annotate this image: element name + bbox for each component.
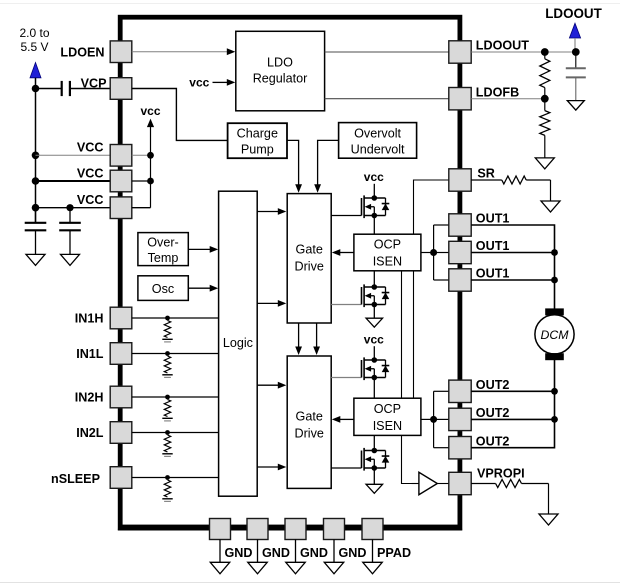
svg-text:IN2H: IN2H [75,391,104,405]
pin label OUT1 (2) [476,239,510,253]
svg-text:LDOOUT: LDOOUT [545,6,602,21]
pin label SR [477,167,495,181]
label vcc (bridge 1) [364,170,384,184]
junction supply-VCC2 [32,177,40,185]
svg-text:VCC: VCC [77,141,104,155]
wire rail to C1 [36,88,62,90]
ground under PPAD pin [363,562,383,574]
ground under Q2 [366,318,383,327]
IC chip boundary bottom edge extra weight [118,529,463,531]
wire OUT2 tie bracket [434,391,449,447]
ground under C2 [26,254,45,265]
wire OUT1 pin3 to motor [471,279,554,281]
svg-text:Logic: Logic [223,336,253,350]
junction IN1L pulldown [165,351,170,356]
pin PPAD [362,519,383,540]
pin label IN2L [76,426,104,440]
pin label VCC (1) [77,141,104,155]
wire LDOOUT pin to divider [471,51,576,53]
wire Logic to Gate Drive 1 (b) [257,300,286,307]
svg-text:Undervolt: Undervolt [351,142,405,156]
resistor R8 (SR) [471,176,550,184]
junction vcc-VCC2 [147,178,154,185]
junction OUT1 tie [430,249,437,256]
label LDO Regulator [253,56,308,86]
svg-text:LDOEN: LDOEN [60,45,104,59]
pin GND [285,519,306,540]
wire Logic to Gate Drive 2 (a) [257,382,286,389]
junction LDOFB-R7 [541,95,549,103]
wire OCP1 to OCP2 (a) [401,271,403,398]
wire IN2L to Logic [132,432,219,434]
supply label 2.0 to 5.5 V [19,26,49,54]
pin label OUT2 (1) [476,378,510,392]
junction motor-OUT2-1 [551,388,558,395]
label Osc [152,282,174,296]
capacitor C2 (bulk on rail) [25,208,47,255]
svg-text:OUT1: OUT1 [476,212,510,226]
ground under GND pin [210,562,230,574]
svg-text:Osc: Osc [152,282,174,296]
wire rail to VCC2 pin [36,180,111,182]
wire R8 to ground [550,180,552,201]
label OCP ISEN 1 [373,238,402,269]
wire IN1H to Logic [132,317,219,319]
pin OUT1 [449,241,471,263]
svg-text:ISEN: ISEN [373,255,402,269]
junction LDOOUT-C4 [572,48,580,56]
junction nSLEEP pulldown [165,475,170,480]
svg-text:OUT1: OUT1 [476,239,510,253]
pin label GND [262,546,290,560]
svg-text:PPAD: PPAD [377,546,411,560]
label vcc (internal rail) [140,104,160,118]
junction motor-OUT1-3 [551,277,558,284]
junction supply-VCP [32,85,40,93]
wire SR to OCP1 [414,180,449,234]
wire GND pin to ground [257,540,259,563]
wire VCC2 internal stub [132,180,151,182]
wire LDOFB pin to divider [471,98,545,100]
block OCP ISEN 1 [354,234,421,271]
svg-text:VCP: VCP [81,76,107,90]
page rule (faint top line) [0,3,620,5]
svg-text:Drive: Drive [295,259,324,273]
capacitor C1 (VCP series) [62,81,70,96]
wire VCP to Charge Pump [132,89,228,141]
pin label PPAD [377,546,411,560]
wire OUT1 pin2 to motor [471,252,554,254]
svg-text:LDOOUT: LDOOUT [476,39,529,53]
block Over-Temp [138,233,188,266]
wire Logic to Gate Drive 1 (a) [257,208,286,215]
wire VCC1 internal stub [132,154,151,156]
junction motor-OUT1-2 [551,249,558,256]
svg-text:5.5 V: 5.5 V [20,40,48,54]
ground under C3 [61,254,80,265]
pin VCC [110,197,132,219]
pin OUT1 [449,214,471,236]
IC chip boundary [120,17,460,527]
label OCP ISEN 2 [373,402,402,433]
wire Overvolt to Gate Drive 1 [314,140,338,192]
wire GND pin to ground [219,540,221,563]
wire IN2H to Logic [132,396,219,398]
pin nSLEEP [110,467,132,489]
svg-text:Over-: Over- [147,236,178,250]
junction vcc-VCC1 [147,152,154,159]
pin VPROPI [449,472,471,494]
block Overvolt Undervolt [339,123,417,159]
ground under R2 [162,375,172,378]
pin GND [247,519,268,540]
svg-text:Regulator: Regulator [253,72,308,86]
wire Logic to Gate Drive 2 (b) [257,464,286,471]
pin label GND [339,546,367,560]
pin label LDOEN [60,45,104,59]
wire vcc to LDO [213,79,236,86]
wire Q1 source to OCP1 [373,216,375,235]
label LDOOUT (external node) [545,6,602,21]
wire PPAD pin to ground [372,540,374,563]
svg-text:Pump: Pump [241,143,274,157]
wire vcc to Q3 drain [373,346,375,360]
wire GND pin to ground [295,540,297,563]
svg-text:Charge: Charge [237,127,278,141]
transistor Q1 (high-side 1) [331,195,389,218]
resistor R4 (IN2L pulldown) [164,435,170,452]
pin VCP [110,78,132,100]
junction VCC3-C3 tap [66,204,73,211]
pin VCC [110,145,132,167]
svg-text:IN1H: IN1H [75,312,104,326]
transistor Q2 (low-side 1) [331,284,389,307]
resistor R1 (IN1H pulldown) [164,321,170,338]
pin OUT2 [449,408,471,430]
pin label OUT2 (2) [476,406,510,420]
pin label nSLEEP [51,472,100,486]
wire buffer to VPROPI pin [437,483,448,485]
wire OCP2 to buffer [402,435,412,483]
junction IN1H pulldown [165,316,170,321]
wire LDO to LDOFB pin [325,98,449,100]
svg-text:2.0 to: 2.0 to [19,26,49,40]
pin OUT2 [449,380,471,402]
svg-text:GND: GND [262,546,290,560]
pin IN2H [110,386,132,408]
capacitor C4 (LDO output) [566,52,586,101]
block Gate Drive 1 [287,194,331,323]
pin OUT1 [449,269,471,291]
pin IN1L [110,343,132,365]
block OCP ISEN 2 [354,398,421,435]
svg-text:ISEN: ISEN [373,419,402,433]
label vcc (bridge 2) [364,332,384,346]
ground under R3 [162,418,172,421]
wire Q3 source to OCP2 [373,378,375,399]
label Gate Drive 1 [295,242,324,273]
pin GND [324,519,345,540]
label Charge Pump [237,127,278,157]
pin IN2L [110,422,132,444]
wire rail to VCC1 pin [36,154,111,156]
label vcc (LDO input) [189,75,209,89]
label Logic [223,336,253,350]
junction supply-VCC3 [32,204,40,212]
wire OCP1 to Gate Drive 1 [332,249,354,256]
junction IN2H pulldown [165,395,170,400]
ground under C4 [567,101,584,111]
wire LDO to LDOOUT pin [325,51,449,53]
wire OUT1 tie bracket [434,225,449,280]
block Logic [219,191,258,496]
wire C1 to VCP pin [71,88,110,90]
wire rail to VCC3 pin [36,207,111,209]
wire OUT2 pin2 to motor [471,418,554,420]
resistor R6 (feedback top) [540,52,550,99]
svg-text:Gate: Gate [296,242,323,256]
junction OUT2 tie [430,416,437,423]
svg-text:Overvolt: Overvolt [354,126,401,140]
pin LDOFB [449,88,471,110]
wire Q4 source to ground [373,468,375,484]
svg-text:LDOFB: LDOFB [476,85,519,99]
wire OUT2 pin1 to motor [471,390,554,392]
pin label OUT1 (3) [476,267,510,281]
wire OCP1 to Q2 drain [373,271,375,287]
pin label LDOFB [476,85,519,99]
svg-text:GND: GND [300,546,328,560]
svg-text:OCP: OCP [374,238,401,252]
wire OCP2 to Gate Drive 2 [332,416,354,423]
svg-text:vcc: vcc [140,104,160,118]
wire OCP1 output to OUT1 junction [421,252,434,254]
power flag VIN blue triangle [30,63,41,78]
resistor R3 (IN2H pulldown) [164,400,170,417]
svg-text:vcc: vcc [364,332,384,346]
svg-text:OCP: OCP [374,402,401,416]
pin LDOEN [110,41,132,63]
pin label IN1H [75,312,104,326]
pin label VPROPI [477,467,525,481]
power flag LDOOUT blue triangle [569,23,580,48]
wire Gate Drive 1 to Gate Drive 2 (b) [313,323,320,355]
op-amp A1 (VPROPI buffer) [412,472,438,494]
capacitor C3 (bulk on VCC3) [59,208,81,255]
pin label IN2H [75,391,104,405]
pin label LDOOUT (pin) [476,39,529,53]
block LDO Regulator [236,31,325,111]
svg-text:OUT1: OUT1 [476,267,510,281]
label Gate Drive 2 [295,410,324,441]
svg-text:OUT2: OUT2 [476,378,510,392]
wire supply rail vertical [35,78,37,223]
page rule (faint bottom line) [0,582,620,584]
pin label VCC (3) [77,193,104,207]
wire OCP2 output to OUT2 junction [421,418,434,420]
wire Q2 source to ground [373,305,375,319]
transistor Q4 (low-side 2) [331,448,389,471]
transistor Q3 (high-side 2) [331,357,389,380]
pin label VCC (2) [77,166,104,180]
junction supply-VCC1 [32,152,40,160]
svg-text:SR: SR [477,167,495,181]
svg-text:OUT2: OUT2 [476,406,510,420]
svg-text:GND: GND [339,546,367,560]
power arrow vcc (internal) [147,119,154,128]
ground under GND pin [248,562,268,574]
ground under R1 [162,339,172,342]
svg-text:Temp: Temp [148,251,179,265]
block Osc [138,276,188,301]
wire IN1L to Logic [132,353,219,355]
label Overvolt Undervolt [351,126,405,156]
label Over-Temp [147,236,178,265]
wire nSLEEP to Logic [132,477,219,479]
resistor R5 (nSLEEP pulldown) [164,480,170,497]
svg-text:Drive: Drive [295,427,324,441]
resistor R9 (VPROPI) [471,480,548,488]
pin label OUT2 (3) [476,434,510,448]
svg-text:OUT2: OUT2 [476,434,510,448]
block Charge Pump [228,123,287,158]
pin IN1H [110,307,132,329]
svg-text:vcc: vcc [364,170,384,184]
svg-text:vcc: vcc [189,75,209,89]
svg-text:VPROPI: VPROPI [477,467,525,481]
svg-text:IN1L: IN1L [76,347,104,361]
wire OUT1 pin1 to motor [471,225,554,309]
motor DCM [535,308,574,360]
ground under R5 [162,499,172,502]
resistor R7 (feedback bottom) [540,99,550,158]
svg-text:VCC: VCC [77,193,104,207]
ground under R8 [541,201,560,212]
block Gate Drive 2 [287,356,331,488]
pin OUT2 [449,437,471,459]
ground under R9 [539,514,558,525]
ground under R7 [535,158,554,169]
junction motor-OUT2-2 [551,416,558,423]
wire vcc to Q1 drain [373,184,375,198]
junction IN2L pulldown [165,430,170,435]
pin label GND [300,546,328,560]
ground under Q4 [366,484,383,493]
wire motor to OUT2 pin3 [471,360,554,448]
ground under R4 [162,454,172,457]
pin VCC [110,170,132,192]
wire OCP2 to Q4 drain [373,435,375,450]
resistor R2 (IN1L pulldown) [164,356,170,373]
wire VCC3 internal stub [132,127,151,208]
wire Osc to Logic [188,285,218,292]
pin SR [449,169,471,191]
ground under GND pin [286,562,306,574]
pin label OUT1 (1) [476,212,510,226]
wire GND pin to ground [333,540,335,563]
svg-text:LDO: LDO [267,56,293,70]
svg-text:nSLEEP: nSLEEP [51,472,100,486]
svg-text:DCM: DCM [540,328,569,342]
svg-text:IN2L: IN2L [76,426,104,440]
wire Gate Drive 1 to Gate Drive 2 (a) [295,323,302,355]
pin label IN1L [76,347,104,361]
pin LDOOUT [449,41,471,63]
wire LDOEN to LDO [132,48,236,55]
wire Over-Temp to Logic [188,246,218,253]
svg-text:VCC: VCC [77,166,104,180]
junction LDOOUT-R6 [541,48,549,56]
wire OCP1 to OCP2 (b) [413,271,415,398]
svg-text:GND: GND [225,546,253,560]
ground under GND pin [324,562,344,574]
svg-text:Gate: Gate [296,410,323,424]
pin label GND [225,546,253,560]
pin GND [210,519,231,540]
wire R9 to ground [548,484,550,515]
wire Charge Pump to Gate Drive 1 [287,140,302,192]
pin label VCP [81,76,107,90]
